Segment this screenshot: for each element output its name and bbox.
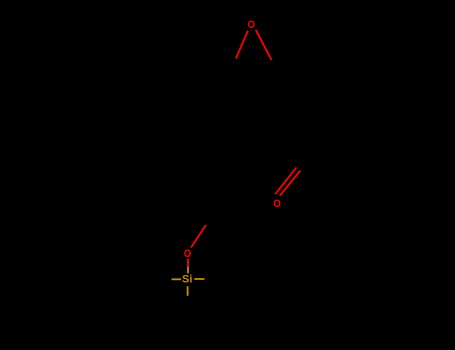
bond O3-Si gold half [187, 267, 189, 274]
bond C3=O2 line 2 (carbonyl double bond, lower-right line) [280, 171, 301, 196]
bond Si1-C7 gold half (lower methyl) [187, 286, 189, 296]
svg-text:Si: Si [182, 274, 192, 286]
bond Si1-C6 gold half (right methyl) [194, 278, 204, 280]
bond O1-C1 (epoxide left C-O bond) [236, 31, 248, 59]
svg-text:O: O [248, 19, 255, 31]
bond O3-C4 (C-O bond up-right to ring carbon) [191, 225, 206, 248]
bond Si1-C5 gold half (left methyl) [172, 278, 181, 280]
bond O1-C2 (epoxide right C-O bond) [256, 30, 272, 60]
bond C3=O2 line 1 (carbonyl double bond, upper-left line) [275, 167, 296, 194]
svg-text:O: O [184, 248, 191, 260]
bond O3-Si red half [187, 259, 189, 267]
svg-text:O: O [273, 198, 280, 210]
